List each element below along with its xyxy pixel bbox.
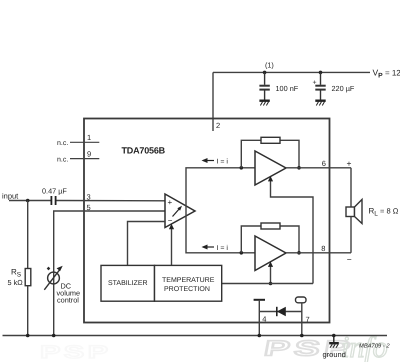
wire temp protection to drive: [222, 283, 313, 285]
wire speaker to pin8: [350, 217, 352, 253]
watermark PSP: [262, 337, 356, 361]
ground rail wire: [3, 335, 388, 337]
svg-text:+: +: [313, 80, 317, 87]
label I=i top with arrow: [202, 157, 229, 165]
svg-text:+: +: [168, 198, 173, 207]
svg-text:5: 5: [87, 203, 91, 212]
node rail/C1 junction: [263, 71, 267, 75]
node pin4/rail: [258, 334, 262, 338]
svg-text:8: 8: [321, 244, 325, 253]
svg-text:100 nF: 100 nF: [276, 84, 299, 93]
label DC volume control: [57, 282, 81, 305]
svg-text:input: input: [2, 192, 19, 201]
svg-text:+: +: [347, 158, 352, 168]
A1 gain arrow: [173, 206, 183, 217]
svg-text:4: 4: [262, 315, 266, 324]
svg-text:−: −: [347, 255, 352, 265]
wire A3 output to pin 8: [286, 252, 351, 254]
svg-text:n.c.: n.c.: [57, 156, 68, 163]
node drive junction: [269, 282, 273, 286]
wire drive arrow into A3: [268, 262, 273, 284]
svg-text:6: 6: [322, 159, 326, 168]
wire temp protection to A1 arrow: [169, 224, 174, 266]
svg-text:n.c.: n.c.: [57, 140, 68, 147]
DC volume control symbol: [44, 266, 62, 290]
op-amp A2 top power amp: [255, 151, 286, 185]
svg-text:I = i: I = i: [217, 157, 229, 165]
svg-text:0.47 µF: 0.47 µF: [42, 187, 67, 196]
pin 1 stub n.c.: [70, 141, 99, 143]
svg-text:220 µF: 220 µF: [332, 84, 355, 93]
wire input to C3: [9, 200, 51, 202]
capacitor C1 100 nF: [259, 72, 269, 99]
wire A2 output to pin 6: [286, 167, 351, 169]
ground under C2: [315, 101, 325, 106]
svg-text:5 kΩ: 5 kΩ: [8, 278, 24, 287]
op-amp A3 bottom power amp: [255, 236, 286, 271]
node A3 input: [240, 251, 244, 255]
node A3 output: [297, 251, 301, 255]
wire pin 5 volume: [54, 211, 165, 336]
node ground symbol/rail: [332, 334, 336, 338]
svg-text:TEMPERATURE: TEMPERATURE: [162, 277, 215, 284]
wire pin6 to speaker: [350, 168, 352, 207]
svg-text:2: 2: [216, 121, 220, 130]
wire C3 to pin 3 to amp: [56, 200, 165, 202]
svg-text:PSP: PSP: [40, 342, 111, 362]
node rail/C2 junction: [319, 71, 323, 75]
svg-text:PROTECTION: PROTECTION: [164, 286, 210, 293]
label I=i bottom with arrow: [202, 244, 229, 252]
node volume/rail: [52, 334, 56, 338]
capacitor C3 0.47 uF: [51, 196, 55, 205]
svg-text:9: 9: [87, 149, 91, 158]
feedback loop A3 with resistor: [241, 223, 299, 253]
svg-text:TDA7056B: TDA7056B: [122, 146, 166, 156]
node pin7/rail: [300, 334, 304, 338]
wire drive arrow into A2: [268, 176, 313, 284]
svg-text:MBA709 - 2: MBA709 - 2: [359, 342, 390, 349]
svg-text:control: control: [57, 295, 79, 304]
block TEMPERATURE PROTECTION: [155, 265, 222, 301]
watermark info script: [341, 331, 388, 362]
node RS/rail: [26, 334, 30, 338]
svg-text:−: −: [168, 216, 173, 225]
svg-text:7: 7: [306, 315, 310, 324]
wire RS to ground rail: [27, 286, 29, 336]
block STABILIZER: [101, 265, 155, 301]
ground under C1: [259, 101, 269, 106]
node A2 output: [297, 166, 301, 170]
wire pin 2 from rail: [212, 72, 214, 131]
node A2 input: [240, 166, 244, 170]
feedback loop A2 with resistor: [241, 137, 299, 168]
pin 7 pad symbol: [296, 297, 307, 336]
watermark faint bottom-left: [40, 342, 111, 362]
node input/RS junction: [26, 199, 30, 203]
op-amp A1 VGA triangle: [165, 194, 195, 228]
pin 4 terminal symbol: [254, 300, 265, 336]
diode D1: [259, 307, 302, 316]
capacitor C2 220 uF: [315, 72, 325, 99]
wire A1 minus feedback to stabilizer: [128, 222, 166, 266]
svg-text:I = i: I = i: [217, 244, 229, 252]
svg-text:1: 1: [87, 133, 91, 142]
wire to RS: [27, 201, 29, 269]
speaker RL: [346, 200, 362, 224]
svg-text:ground: ground: [323, 350, 346, 359]
resistor RS 5k: [25, 269, 31, 286]
svg-text:3: 3: [87, 192, 91, 201]
IC U1 TDA7056B box: [84, 119, 330, 323]
pin 9 stub n.c.: [70, 158, 99, 160]
svg-text:STABILIZER: STABILIZER: [108, 280, 148, 287]
wire A1 output split: [186, 168, 255, 253]
power rail wire Vp: [213, 71, 370, 73]
ground symbol bottom: [329, 336, 339, 348]
svg-text:(1): (1): [265, 61, 274, 70]
